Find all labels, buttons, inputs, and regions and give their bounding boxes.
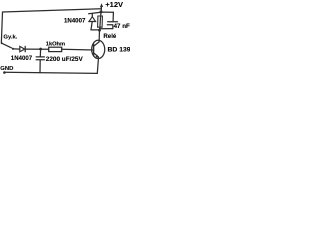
power +12V arrow xyxy=(100,3,103,12)
wire top rail xyxy=(3,9,102,12)
switch S1 xyxy=(1,42,14,50)
wire diode to resistor xyxy=(25,48,49,50)
svg-text:Relé: Relé xyxy=(103,33,116,40)
wire diode to collector node xyxy=(91,29,99,31)
svg-text:Gy.k.: Gy.k. xyxy=(3,34,17,40)
node collector junction xyxy=(98,29,101,32)
wire bottom rail xyxy=(5,72,98,73)
svg-text:GND: GND xyxy=(0,66,13,72)
resistor R1 1kOhm xyxy=(49,47,62,51)
svg-text:1N4007: 1N4007 xyxy=(64,18,86,25)
wire collector / relay column xyxy=(99,12,101,42)
svg-text:+12V: +12V xyxy=(105,0,123,9)
capacitor C2 47nF xyxy=(101,12,117,29)
transistor Q1 BD139 xyxy=(92,40,105,58)
svg-text:2200 uF/25V: 2200 uF/25V xyxy=(46,56,84,63)
relay K1 coil box xyxy=(98,16,103,27)
svg-text:47 nF: 47 nF xyxy=(114,23,130,30)
svg-text:BD 139: BD 139 xyxy=(108,46,131,53)
wire emitter down xyxy=(97,58,98,74)
wire resistor to base xyxy=(62,48,94,51)
capacitor C1 2200uF xyxy=(36,49,44,73)
wire cap to collector node xyxy=(100,28,113,30)
node capacitor tap xyxy=(39,48,42,51)
svg-text:1kOhm: 1kOhm xyxy=(46,42,65,48)
node +12V junction xyxy=(100,10,103,13)
diode D2 1N4007 flyback xyxy=(89,12,101,30)
wire left vertical xyxy=(1,12,2,43)
node ground terminal xyxy=(3,71,6,74)
svg-text:1N4007: 1N4007 xyxy=(11,55,33,62)
wire switch to diode xyxy=(14,48,20,50)
diode D1 1N4007 xyxy=(20,46,25,51)
